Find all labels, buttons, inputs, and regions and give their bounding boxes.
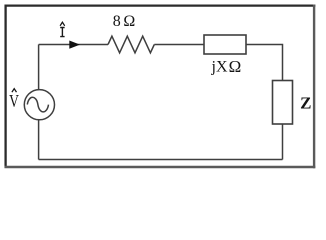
value label 8 Ω for resistor R1: [113, 13, 136, 30]
svg-text:jX: jX: [211, 59, 228, 76]
impedance Z1 (box): [273, 81, 293, 125]
AC source sine symbol: [27, 97, 48, 112]
wire: reactance box to top-right corner down to load: [246, 45, 283, 81]
wire: bottom horizontal return rail: [39, 159, 283, 161]
label V̂ (source voltage phasor): [9, 89, 19, 111]
wire: bottom rail up to source bottom: [38, 120, 40, 160]
svg-text:Ω: Ω: [229, 57, 242, 76]
wire: resistor to reactance box: [154, 44, 204, 46]
svg-text:Ω: Ω: [123, 13, 135, 30]
svg-text:Z: Z: [300, 94, 311, 113]
AC voltage source V1 (circle): [24, 90, 54, 120]
svg-text:8: 8: [113, 13, 121, 30]
wire: top horizontal to resistor: [39, 44, 108, 46]
wire: load bottom down to bottom rail: [282, 124, 284, 160]
current arrow head (direction of Î): [69, 41, 80, 49]
value label jX Ω for reactance X1: [211, 57, 242, 76]
reactance X1 (box): [204, 35, 246, 54]
resistor R1 zigzag: [108, 36, 154, 53]
label Î (current phasor): [60, 22, 65, 37]
wire: source top to top-left corner: [38, 45, 40, 90]
svg-text:V: V: [9, 91, 19, 111]
